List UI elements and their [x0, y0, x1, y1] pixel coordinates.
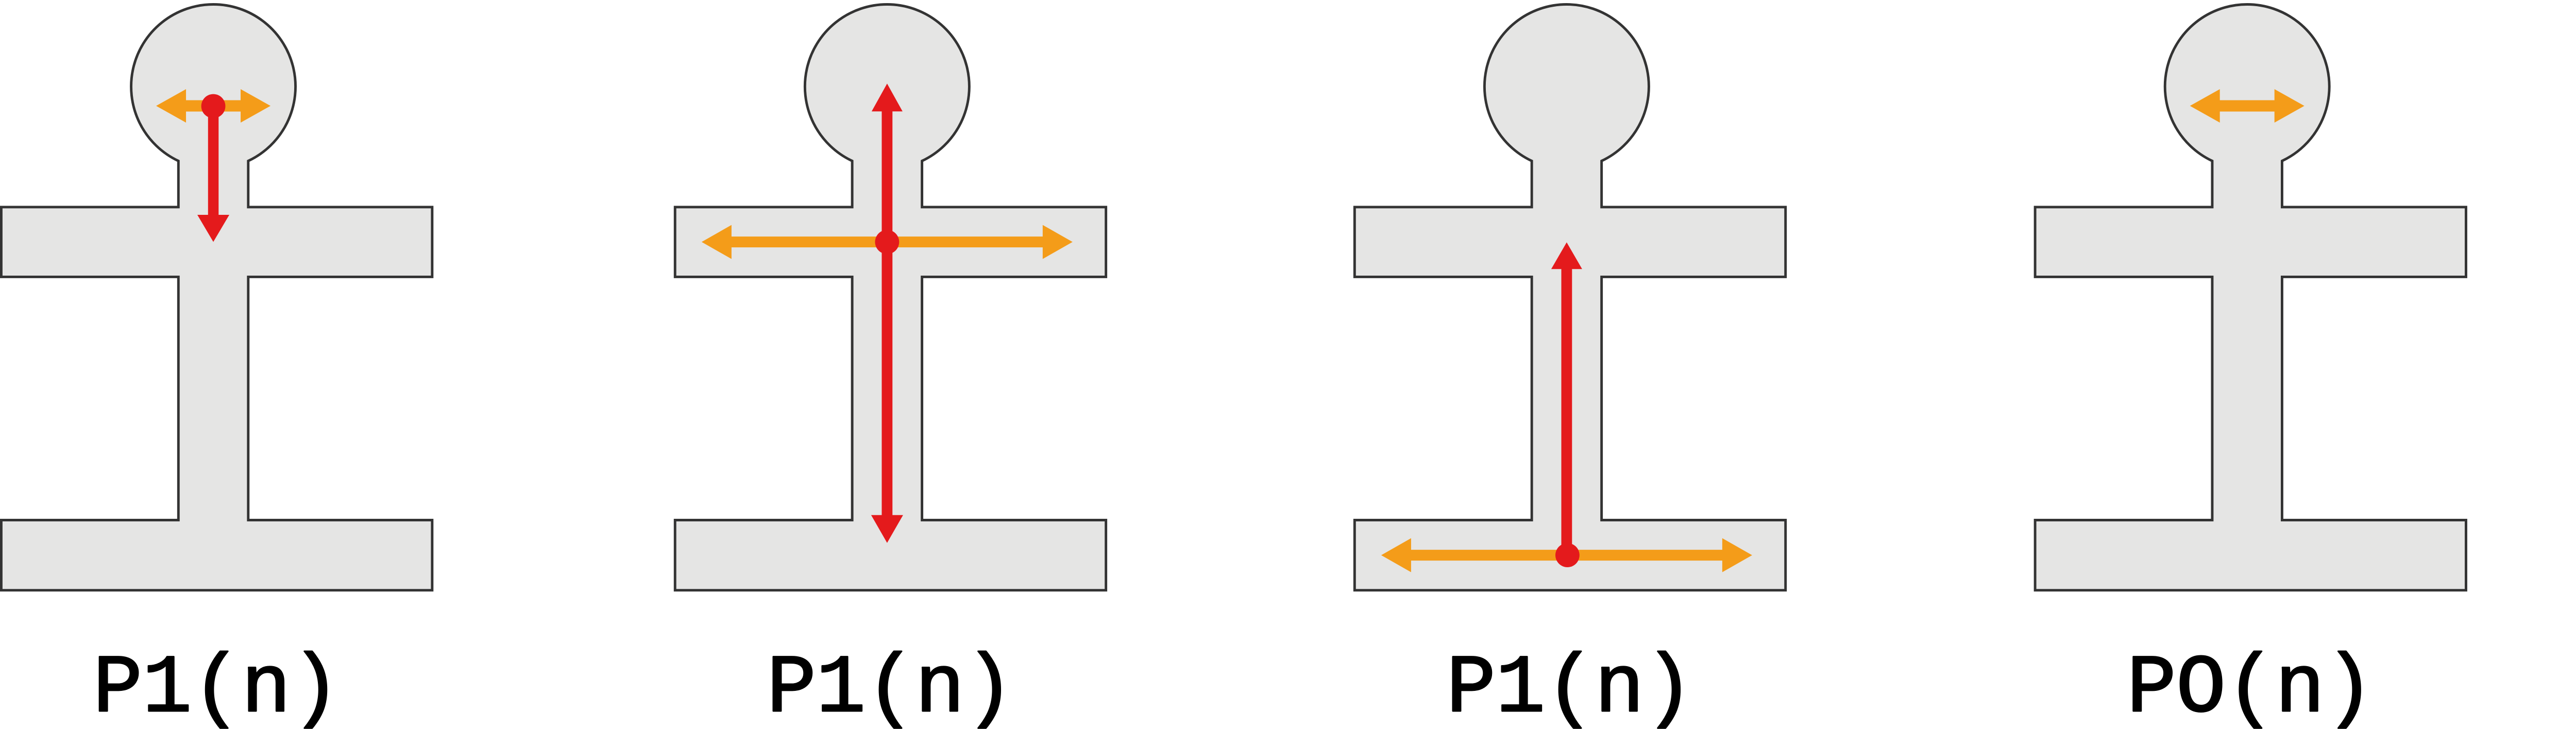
figure 3 orange double arrow on bottom bar [1381, 538, 1752, 572]
figure 3 red pivot dot on bottom bar [1555, 543, 1580, 567]
figure 4 body outline [2035, 4, 2466, 590]
svg-text:P1(n): P1(n) [93, 643, 341, 729]
figure 2 red vertical double arrow [871, 83, 903, 542]
figure 2 orange double arrow on arm bar [702, 225, 1073, 259]
figure 2 red pivot dot on arm bar [875, 230, 899, 254]
figure 3 body outline [1354, 4, 1785, 590]
svg-text:P1(n): P1(n) [1446, 643, 1693, 729]
figure 3 red arrow up from bottom bar to arm bar [1551, 242, 1582, 555]
figure 1 red pivot dot on head [201, 94, 226, 118]
figure 1 body outline [1, 4, 432, 590]
figure 4 orange double arrow on head [2190, 89, 2304, 123]
figure 2 body outline [675, 4, 1106, 590]
svg-text:P1(n): P1(n) [767, 643, 1014, 729]
figure 1 orange double arrow on head [156, 89, 270, 123]
figure 1 red arrow down from head to arm bar [197, 106, 229, 242]
svg-text:PO(n): PO(n) [2127, 643, 2374, 729]
